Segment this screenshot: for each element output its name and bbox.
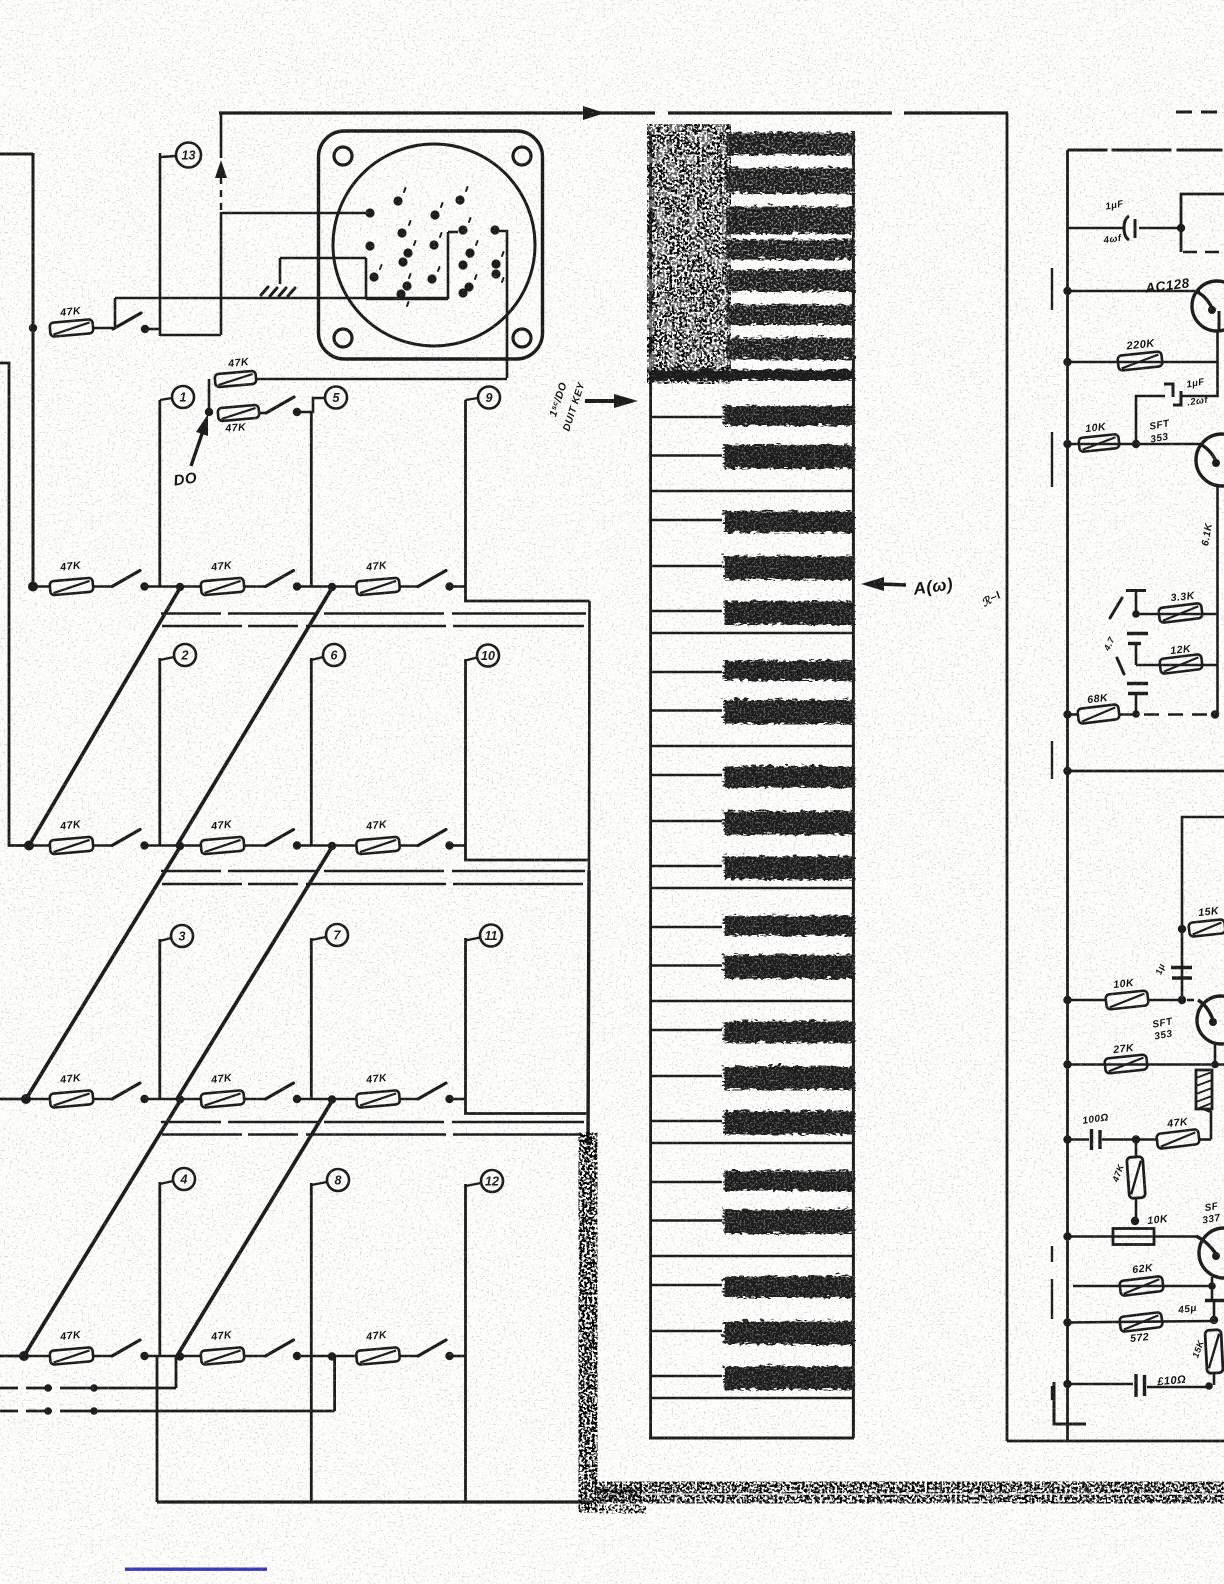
wire diagonal link xyxy=(29,588,180,846)
wire R3 lead dashes xyxy=(209,412,218,414)
wire left-box right edge lower xyxy=(588,870,589,1145)
white key split line xyxy=(651,1284,722,1286)
wire row5 e xyxy=(297,1355,357,1358)
resistor R3 47K (lower DO) xyxy=(218,405,260,422)
wire 270n right xyxy=(1147,1386,1209,1389)
wire row4 c xyxy=(145,1098,202,1101)
resistor R15 47K xyxy=(356,1347,400,1365)
switch row2-2 blade xyxy=(266,571,294,587)
wire circle hook xyxy=(466,938,481,941)
node S2 output xyxy=(293,408,301,416)
wire C1 left xyxy=(1068,227,1125,230)
white key split line xyxy=(651,865,722,867)
wire row3 g xyxy=(450,844,466,847)
node 62K right xyxy=(1208,1282,1216,1290)
switch row5-2 blade xyxy=(266,1340,294,1356)
wire riser top xyxy=(220,112,223,158)
black key xyxy=(722,443,853,467)
wire 62K row xyxy=(1073,1285,1212,1288)
label cap marks xyxy=(1110,598,1124,674)
fold mark xyxy=(1051,1386,1053,1400)
resistor R11 47K xyxy=(200,1090,244,1108)
wire bus line a xyxy=(161,1121,584,1124)
resistor RV vertical xyxy=(1127,1156,1146,1198)
bottom noise band xyxy=(597,1482,1224,1503)
wire column xyxy=(158,1182,161,1356)
bottom noise tail xyxy=(600,1505,645,1513)
switch row5-3 blade xyxy=(418,1340,446,1356)
wire loop right side solid xyxy=(220,212,223,335)
node bus 57K xyxy=(1063,1318,1071,1326)
keyboard bottom edge xyxy=(649,1437,854,1440)
white key split line xyxy=(651,926,722,928)
black key speckle xyxy=(722,1169,853,1189)
node row4 s1 out xyxy=(140,1095,148,1103)
node 270n right xyxy=(1205,1382,1213,1390)
wire top-right dashed xyxy=(1176,111,1224,114)
keyboard upper black key speckle xyxy=(724,238,853,258)
capacitor C1 xyxy=(1124,216,1129,240)
socket mounting hole top-left xyxy=(334,147,352,165)
node bus 68K xyxy=(1063,710,1071,718)
label 1st C/DO rotated xyxy=(544,375,587,433)
switch row4-2 blade xyxy=(266,1083,294,1099)
socket mounting hole bottom-left xyxy=(334,329,352,347)
wire row5 f xyxy=(399,1355,418,1358)
keyboard upper black key xyxy=(724,238,853,258)
node tap B dots xyxy=(44,1407,52,1415)
resistor R13 47K xyxy=(49,1347,93,1365)
node bus 27K xyxy=(1063,1060,1071,1068)
circle key 4 xyxy=(173,1168,195,1190)
resistor R7 47K xyxy=(49,837,93,855)
resistor 220K xyxy=(1117,351,1162,371)
node bus Q1 xyxy=(1063,287,1071,295)
wire row5 feed xyxy=(0,1355,24,1358)
node bus 220K xyxy=(1063,358,1071,366)
wire bus line b xyxy=(162,1133,582,1136)
wire S1 out to loop xyxy=(145,328,161,331)
capacitor C5 xyxy=(1134,1374,1137,1397)
wire 10K row xyxy=(1068,443,1201,446)
capacitor C3 xyxy=(1171,966,1192,969)
circle key 6 xyxy=(323,644,345,666)
keyboard upper black key speckle xyxy=(724,205,853,232)
wire circle hook xyxy=(311,1182,327,1185)
wire bus line b xyxy=(162,625,584,628)
keyboard top noise column xyxy=(649,129,729,379)
resistor R10 47K xyxy=(49,1090,93,1108)
white key C line bottom xyxy=(651,1397,854,1400)
wire column xyxy=(310,1183,313,1356)
keyboard upper black key xyxy=(724,336,853,358)
wire top-left feed xyxy=(0,153,33,156)
wire 270n lead xyxy=(1068,1383,1134,1386)
wire row5 a xyxy=(24,1355,50,1358)
black key xyxy=(722,1365,853,1389)
wire row2 d xyxy=(244,585,266,588)
node bus rail2 xyxy=(1063,767,1071,775)
wire circle hook xyxy=(160,938,171,941)
wire circle hook xyxy=(311,657,323,660)
socket mounting hole top-right xyxy=(513,147,531,165)
wire bus line b xyxy=(162,883,583,886)
switch S2 blade xyxy=(266,397,294,413)
bracket mark bottom xyxy=(1054,1382,1086,1424)
resistor 47K-r xyxy=(1156,1129,1200,1149)
wire top bus xyxy=(219,111,1008,114)
wire 10K2 dash xyxy=(1187,999,1198,1002)
wire column 1 lower xyxy=(156,1356,159,1502)
wire row3 a xyxy=(29,844,50,847)
keyboard upper black key speckle xyxy=(724,268,853,290)
circle key 2 xyxy=(174,644,196,666)
node row5 d2 xyxy=(176,1352,184,1360)
resistor 15K-1 xyxy=(1188,919,1224,937)
wire column xyxy=(464,400,467,587)
white key E/F line xyxy=(651,490,854,493)
wire ground stub vertical xyxy=(279,258,282,284)
wire row2 c xyxy=(145,585,202,588)
black key speckle xyxy=(722,810,853,834)
wire R1 to switch S1 xyxy=(92,327,113,330)
wire Q4 emitter drop xyxy=(1211,1277,1214,1302)
wire R3 to S2 xyxy=(259,412,266,415)
socket pin number marks xyxy=(380,187,504,306)
node row2 d3 xyxy=(328,583,336,591)
circle key 8 xyxy=(327,1169,349,1191)
black key xyxy=(722,1275,853,1297)
black key xyxy=(722,555,853,579)
wire step to box edge xyxy=(466,1099,588,1114)
resistor 27K xyxy=(1104,1054,1147,1073)
white key split line xyxy=(651,1330,722,1332)
node row2 input xyxy=(28,582,38,592)
black key speckle xyxy=(722,1020,853,1042)
wire row5 b xyxy=(92,1355,112,1358)
wire row4 e xyxy=(297,1098,357,1101)
wire step to box edge xyxy=(466,846,589,861)
wire bottom collector xyxy=(157,1500,592,1503)
wire to pin xyxy=(448,231,458,234)
node bus 10K2 xyxy=(1063,996,1071,1004)
label RV marks xyxy=(1110,1162,1126,1184)
white key split line xyxy=(651,519,722,521)
label 4.7 rotated xyxy=(1101,635,1117,653)
node 57K right xyxy=(1210,1316,1218,1324)
wire bus line a xyxy=(161,870,585,873)
node bus 10K xyxy=(1063,440,1071,448)
wire C2 right xyxy=(1182,362,1218,396)
white key split line xyxy=(651,964,722,966)
arrowhead on top bus xyxy=(583,106,605,120)
wire C2 left xyxy=(1136,396,1165,444)
circle terminal 13 xyxy=(176,143,201,168)
black key xyxy=(722,698,853,722)
resistor R12 47K xyxy=(356,1090,400,1108)
wire row4 b xyxy=(92,1098,112,1101)
wire row3 c xyxy=(145,844,202,847)
fold mark xyxy=(1051,1279,1053,1319)
wire cap stack top T xyxy=(1126,589,1146,592)
black key speckle xyxy=(722,1065,853,1089)
resistor R1 47K xyxy=(49,319,93,337)
black key xyxy=(722,953,853,977)
wire tick circle13 xyxy=(161,156,176,157)
wire step to box edge xyxy=(466,587,590,602)
resistor 12K xyxy=(1159,654,1203,674)
black key xyxy=(722,1208,853,1232)
wire row4 f xyxy=(399,1098,418,1101)
wire row4 a xyxy=(26,1098,50,1101)
wire diagonal link xyxy=(24,1101,180,1356)
keyboard upper black key xyxy=(724,268,853,290)
wire circle hook xyxy=(466,658,478,661)
black key speckle xyxy=(722,765,853,787)
keyboard noise bottom bar xyxy=(650,368,853,379)
node row3 d2 xyxy=(176,842,184,850)
keyboard right edge xyxy=(852,131,855,1438)
wire row4 d xyxy=(244,1098,266,1101)
wire diagonal link xyxy=(26,847,180,1099)
wire row3 b xyxy=(92,844,112,847)
capacitor CB xyxy=(1127,682,1148,685)
wire 68K dashed xyxy=(1120,713,1213,716)
black key xyxy=(722,1020,853,1042)
wire row2 a xyxy=(33,585,50,588)
wire R2-R3 left stub xyxy=(208,379,211,413)
resistor R9 47K xyxy=(356,837,400,855)
white key split line xyxy=(651,820,722,822)
circle key 10 xyxy=(477,645,499,667)
white key full line xyxy=(651,1142,854,1145)
black key speckle xyxy=(722,443,853,467)
wire hook circle9 xyxy=(466,398,479,400)
node C1-U1 xyxy=(1177,224,1185,232)
switch row4-1 blade xyxy=(112,1083,140,1099)
wire circle hook xyxy=(311,937,326,940)
wire loop left side xyxy=(159,153,162,336)
wire RH bottom to 47K corner xyxy=(1204,1109,1211,1140)
wire 27K row xyxy=(1068,1063,1224,1066)
transistor Q3 xyxy=(1197,996,1224,1044)
switch row3-1 blade xyxy=(112,830,140,846)
node tap A dots xyxy=(44,1384,52,1392)
wire cap stack stem2 xyxy=(1135,644,1138,666)
node row5 s1 out xyxy=(140,1352,148,1360)
black key xyxy=(722,659,853,679)
black key speckle xyxy=(722,1110,853,1134)
white key E/F line xyxy=(651,1255,854,1258)
wire long row1 output xyxy=(115,297,448,300)
wire diagonal link xyxy=(177,1101,332,1356)
circle key 1 xyxy=(172,386,194,408)
wire row2 b xyxy=(92,585,112,588)
wire R2 output to socket drop xyxy=(256,378,507,381)
wire column xyxy=(158,400,161,587)
wire tall mid vertical xyxy=(1006,113,1009,1441)
black key speckle xyxy=(722,1275,853,1297)
node row5 s2 out xyxy=(293,1352,301,1360)
black key speckle xyxy=(722,914,853,934)
switch row4-3 blade xyxy=(418,1083,446,1099)
wire 57K row xyxy=(1068,1321,1215,1323)
wire row5 tap B xyxy=(0,1410,335,1413)
resistor R2 47K (upper DO) xyxy=(215,371,257,388)
wire column xyxy=(158,939,161,1099)
transistor Q1 xyxy=(1192,281,1224,331)
node 27K-Q3 xyxy=(1211,1061,1219,1069)
resistor 62K xyxy=(1119,1276,1164,1296)
fold mark xyxy=(1051,432,1053,487)
wire 10K2 row xyxy=(1068,999,1108,1002)
resistor R4 47K xyxy=(49,578,93,596)
socket barrel circle xyxy=(333,144,535,346)
switch row3-3 blade xyxy=(418,830,446,846)
circle key 9 xyxy=(478,387,500,409)
wire row5 c xyxy=(145,1355,202,1358)
node row2 s3 out xyxy=(445,582,453,590)
wire diagonal link xyxy=(177,847,332,1099)
black key speckle xyxy=(722,555,853,579)
blue pen underline xyxy=(125,1568,267,1571)
wire 47K-r right xyxy=(1199,1138,1211,1141)
black key xyxy=(722,1169,853,1189)
node bus 100n xyxy=(1063,1135,1071,1143)
switch row3-2 blade xyxy=(266,830,294,846)
socket mounting hole bottom-right xyxy=(513,329,531,347)
keyboard upper black key xyxy=(724,303,853,323)
white key split line xyxy=(651,709,722,711)
wire row4 feed xyxy=(0,1098,26,1101)
wire row3 d xyxy=(244,844,266,847)
switch S1 blade xyxy=(113,313,141,329)
node row5 s3 out xyxy=(445,1352,453,1360)
wire row5 tap B vert xyxy=(333,1357,336,1411)
circle key 5 xyxy=(325,387,347,409)
node 10K2 junction xyxy=(1178,996,1186,1004)
white key E/F line xyxy=(651,1000,854,1003)
switch row5-1 blade xyxy=(112,1340,140,1356)
ground symbol xyxy=(261,287,295,296)
resistor 3.3K xyxy=(1158,603,1203,623)
wire column xyxy=(310,412,313,587)
resistor 15K-2 vertical xyxy=(1205,1330,1223,1374)
wire row2 e xyxy=(297,585,357,588)
wire osc2 top rail xyxy=(1068,770,1224,773)
black key xyxy=(722,914,853,934)
white key split line xyxy=(651,1181,722,1183)
wire circle hook xyxy=(160,1181,173,1184)
black key speckle xyxy=(722,659,853,679)
resistor R5 47K xyxy=(200,578,244,596)
wire 68K lead xyxy=(1068,713,1079,716)
resistor 57K xyxy=(1119,1312,1163,1332)
wire row4 g xyxy=(450,1098,466,1101)
white key split line xyxy=(651,1375,722,1377)
white key split line xyxy=(651,1120,722,1122)
smudged box edge xyxy=(579,1140,597,1505)
node row3 s3 out xyxy=(445,841,453,849)
wire row3 feed from left xyxy=(0,363,29,846)
node 68K right xyxy=(1211,710,1219,718)
wire row5 d xyxy=(244,1355,266,1358)
node row2 d2 xyxy=(176,583,184,591)
wire diagonal link xyxy=(177,588,332,846)
node S1 output xyxy=(141,325,149,333)
resistor 10K-1 xyxy=(1078,434,1119,452)
white key split line xyxy=(651,1219,722,1221)
node C4 junction xyxy=(1132,1135,1140,1143)
node row1 input xyxy=(29,324,37,332)
wire column xyxy=(310,1356,313,1502)
socket pins xyxy=(365,195,500,298)
black key speckle xyxy=(722,510,853,532)
wire row3 e xyxy=(297,844,357,847)
wire S2 to col2 xyxy=(297,398,325,412)
fold mark xyxy=(1051,1246,1053,1262)
wire row5 g xyxy=(450,1355,466,1358)
wire ground stub horizontal xyxy=(280,257,366,260)
node row2 s2 out xyxy=(293,582,301,590)
keyboard upper black key xyxy=(724,166,853,192)
wire loop bottom xyxy=(160,334,221,337)
white key full line xyxy=(651,887,854,890)
wire cap stack stem3 xyxy=(1135,694,1138,715)
label 6.1K rotated xyxy=(1200,522,1215,547)
wire socket entry riser xyxy=(447,232,450,299)
transistor Q4 xyxy=(1199,1228,1224,1278)
switch row2-3 blade xyxy=(418,571,446,587)
node stack 3.3K xyxy=(1132,610,1140,618)
node bus 270n xyxy=(1063,1380,1071,1388)
wire ground step down xyxy=(365,258,368,299)
circle key 3 xyxy=(171,925,193,947)
black key xyxy=(722,1320,853,1344)
wire osc bottom xyxy=(1007,1440,1224,1443)
wire Q3 emitter drop xyxy=(1214,1043,1217,1065)
keyboard upper black key speckle xyxy=(724,166,853,192)
arrowhead up on riser xyxy=(215,160,227,178)
wire em drop2 xyxy=(1213,1301,1216,1322)
wire osc left bus xyxy=(1066,150,1069,1441)
circle key 7 xyxy=(326,924,348,946)
node stack bottom xyxy=(1132,710,1140,718)
wire C1 right xyxy=(1139,227,1181,230)
node row5 d3 xyxy=(328,1352,336,1360)
black key speckle xyxy=(722,953,853,977)
socket plate outline xyxy=(319,131,543,359)
fold mark xyxy=(1051,268,1053,310)
white key split line xyxy=(651,416,722,418)
wire circle hook xyxy=(466,1183,482,1186)
resistor 10K-3 xyxy=(1113,1229,1154,1245)
white key split line xyxy=(651,671,722,673)
black key xyxy=(722,855,853,879)
block U1 outline xyxy=(1181,194,1224,252)
wire 100n lead xyxy=(1068,1138,1090,1141)
white key split line xyxy=(651,1075,722,1077)
black key speckle xyxy=(722,1365,853,1389)
keyboard upper black key speckle xyxy=(724,131,853,153)
black key xyxy=(722,765,853,787)
black key speckle xyxy=(722,600,853,624)
white key split line xyxy=(651,610,722,612)
node row3 input xyxy=(24,841,34,851)
label 15K-2 rotated xyxy=(1190,1338,1206,1359)
arrow A(omega) xyxy=(861,577,884,591)
arrow to keyboard top xyxy=(585,399,620,403)
